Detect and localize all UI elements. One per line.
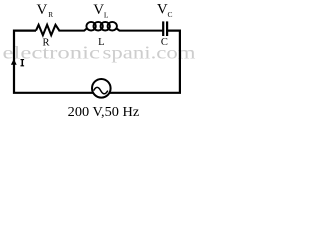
wire resistor to inductor [59,28,87,30]
resistor R [36,25,59,35]
svg-text:V: V [37,2,48,18]
capacitor C plates [162,21,164,36]
svg-text:C: C [168,10,173,19]
inductor L coil loops [86,22,116,31]
label I [21,59,25,66]
svg-text:electronic: electronic [3,43,101,63]
svg-text:L: L [98,37,104,48]
svg-text:R: R [48,11,53,19]
sine wave [94,87,108,93]
wire right loop: capacitor to top-right corner, right side, bottom-right [108,31,180,93]
svg-text:V: V [93,2,104,18]
wire inductor to capacitor [117,28,164,30]
svg-text:L: L [104,10,109,19]
svg-text:R: R [43,37,50,48]
AC source circle [92,79,111,98]
wire left loop: top-left, left side, bottom-left [14,31,95,93]
svg-text:spani.com: spani.com [103,43,196,63]
svg-text:V: V [157,2,168,18]
current arrow I on left wire [11,59,17,65]
svg-text:C: C [161,37,168,48]
svg-text:200 V,50 Hz: 200 V,50 Hz [68,105,140,120]
